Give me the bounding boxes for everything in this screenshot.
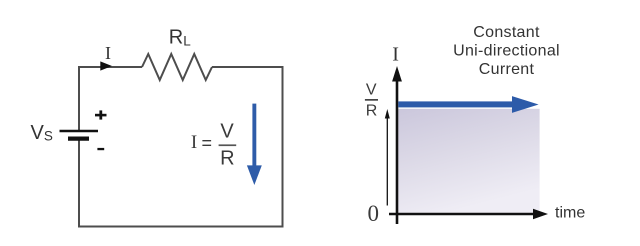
wire bottom of loop (79, 226, 284, 228)
battery plus sign (95, 110, 107, 119)
svg-text:I: I (392, 44, 399, 66)
V/R level label on y-axis (365, 82, 378, 120)
formula I = V/R (191, 120, 236, 169)
wire top right segment (212, 66, 282, 68)
svg-text:0: 0 (367, 201, 379, 226)
svg-text:V: V (220, 120, 234, 142)
svg-text:RL: RL (169, 27, 191, 49)
wire left side of loop (bottom segment below battery) (78, 141, 80, 228)
svg-text:V: V (366, 82, 377, 99)
battery minus sign (97, 148, 104, 150)
svg-text:Constant: Constant (473, 24, 540, 41)
svg-text:I: I (105, 43, 111, 63)
svg-text:I: I (191, 132, 197, 153)
battery VS negative plate (short thick) (68, 137, 89, 141)
wire right side of loop (282, 66, 284, 227)
graph x-axis (389, 209, 548, 219)
dimension arrow for V/R level (385, 109, 390, 206)
blue current arrow (downward) inside loop (247, 104, 262, 185)
blue constant current arrow (horizontal) (398, 96, 538, 113)
resistor RL zigzag (142, 54, 212, 80)
graph shaded area (gradient) (398, 109, 539, 213)
svg-text:VS: VS (31, 122, 53, 144)
svg-text:=: = (201, 133, 212, 153)
svg-text:Current: Current (479, 61, 535, 78)
svg-text:Uni-directional: Uni-directional (453, 43, 560, 60)
battery VS positive plate (long thin) (60, 130, 99, 133)
graph title (453, 24, 560, 78)
svg-text:R: R (220, 147, 234, 169)
svg-text:R: R (366, 103, 378, 120)
current direction arrowhead on top wire (100, 61, 112, 70)
graph y-axis (392, 66, 402, 224)
wire left side of loop (top segment above battery) (79, 67, 142, 130)
svg-text:time: time (555, 205, 585, 222)
